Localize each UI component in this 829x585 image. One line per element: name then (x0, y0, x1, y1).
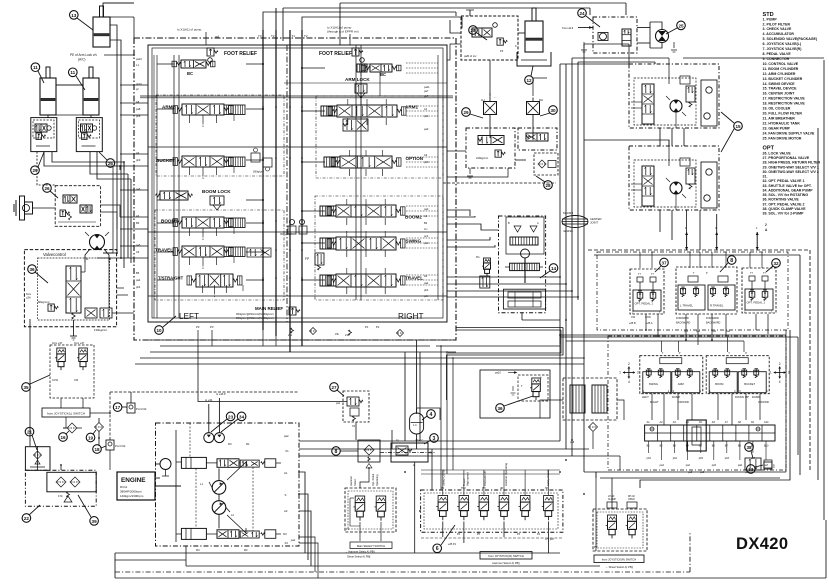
cross marker right (770, 362, 790, 384)
svg-text:22. HYDRAULIC TANK: 22. HYDRAULIC TANK (763, 122, 801, 126)
svg-text:21. AIR BREATHER: 21. AIR BREATHER (763, 117, 796, 121)
balloon 29 right (462, 108, 483, 118)
svg-text:A9: A9 (136, 151, 140, 155)
joystick right 7 (706, 351, 769, 404)
svg-text:RH: RH (539, 98, 543, 102)
balloon 28 top (469, 26, 487, 40)
to pump note left (177, 28, 206, 46)
svg-text:from JOYSTICK(R) SWITCH: from JOYSTICK(R) SWITCH (602, 558, 636, 562)
STD parts list (763, 12, 818, 140)
svg-text:OPEN: OPEN (628, 499, 635, 501)
svg-text:pa10: pa10 (495, 371, 501, 375)
svg-text:K: K (515, 44, 517, 48)
svg-text:P3: P3 (500, 49, 504, 53)
joystick left 6 (640, 351, 703, 404)
wires pedals down (646, 314, 768, 345)
TRAVEL right valve (320, 274, 423, 287)
main select switch label (345, 542, 392, 559)
svg-text:X1: X1 (285, 449, 289, 453)
svg-text:pa2: pa2 (424, 207, 429, 211)
swing motor (505, 249, 543, 283)
BOOM1 valve (161, 217, 245, 228)
from joystick R switch box bank (480, 552, 532, 566)
svg-text:27. PROPORTIONAL VALVE: 27. PROPORTIONAL VALVE (763, 156, 810, 160)
svg-text:pa3: pa3 (660, 464, 665, 467)
svg-text:15. TRAVEL DEVICE: 15. TRAVEL DEVICE (763, 87, 798, 91)
bucket port reliefs (251, 148, 272, 174)
solenoid bank vertical labels (442, 441, 575, 486)
svg-text:⌀3A: ⌀3A (26, 295, 31, 299)
svg-text:OPT. PEDAL 1: OPT. PEDAL 1 (635, 302, 654, 306)
wire hammer block context (360, 430, 392, 488)
svg-text:3. CHECK VALVE: 3. CHECK VALVE (763, 27, 792, 31)
balloon 3 (424, 434, 438, 444)
svg-text:380HP/2000rpm: 380HP/2000rpm (120, 490, 142, 494)
main valve row links right (301, 63, 438, 285)
spool port stubs left (190, 115, 243, 298)
valvecontrol block 36 (24, 250, 116, 327)
air breather 21 (25, 447, 50, 471)
svg-text:33: 33 (748, 467, 754, 472)
shuttle box 28 (443, 153, 558, 183)
swing priority FP (305, 253, 324, 270)
svg-text:1: 1 (619, 371, 621, 375)
svg-text:24: 24 (579, 11, 585, 16)
two-way block right 30 (518, 128, 557, 150)
svg-text:12: 12 (526, 78, 532, 83)
left bus verticals (124, 162, 131, 268)
svg-text:A1: A1 (284, 471, 288, 475)
svg-text:28: 28 (470, 28, 476, 33)
svg-text:pb5: pb5 (699, 457, 704, 460)
svg-text:JOINT: JOINT (590, 221, 598, 225)
svg-text:pa8: pa8 (688, 471, 693, 474)
wire joystickL box down (63, 413, 110, 428)
svg-text:BC: BC (187, 71, 193, 76)
svg-text:Safety Cut-off: Safety Cut-off (442, 469, 446, 486)
svg-text:26: 26 (44, 186, 50, 191)
restriction valve LH (481, 95, 497, 136)
svg-text:6. JOYSTICK VALVE(L): 6. JOYSTICK VALVE(L) (763, 42, 802, 46)
svg-text:1.0: 1.0 (413, 424, 417, 427)
svg-text:L.TRAVEL: L.TRAVEL (680, 304, 693, 308)
svg-text:28: 28 (545, 183, 551, 188)
svg-text:pb7: pb7 (751, 457, 756, 460)
balloon 21 (25, 427, 37, 450)
svg-text:⌀35 B: ⌀35 B (629, 322, 636, 325)
wire bottom mid verticals (464, 522, 549, 554)
svg-text:IC1: IC1 (429, 452, 434, 455)
balloon 22 (22, 505, 40, 522)
svg-text:36: 36 (497, 406, 503, 411)
svg-text:BC: BC (380, 72, 386, 77)
svg-text:FP: FP (305, 257, 309, 261)
svg-text:38. QUICK CLAMP VALVE: 38. QUICK CLAMP VALVE (763, 207, 807, 211)
svg-text:pa3: pa3 (424, 127, 429, 131)
svg-text:23. GEAR PUMP: 23. GEAR PUMP (763, 126, 791, 130)
main valve inner rails left (157, 55, 179, 318)
wire valvecontrol to valve (97, 253, 134, 313)
svg-text:Shear Select A) P8§: Shear Select A) P8§ (347, 555, 371, 559)
swing left valves (476, 256, 491, 288)
label PE of Arm Lock (70, 53, 97, 62)
balloon 11 right (69, 68, 86, 90)
svg-text:⌀35 P1: ⌀35 P1 (448, 543, 457, 546)
svg-text:pa1: pa1 (291, 538, 296, 542)
svg-text:11. BOOM CYLINDER: 11. BOOM CYLINDER (763, 67, 799, 71)
svg-text:CCW: CCW (52, 379, 59, 382)
balloon 25 (666, 21, 685, 34)
main valve bottom rail links (263, 330, 560, 414)
svg-text:37. OPT. PEDAL VALVE 2: 37. OPT. PEDAL VALVE 2 (763, 202, 805, 206)
balloon 36 (28, 265, 48, 283)
svg-text:←: ← (494, 95, 497, 99)
svg-text:R3: R3 (228, 442, 232, 446)
wire engine to pump (155, 478, 181, 486)
svg-text:3: 3 (637, 371, 639, 375)
balloon 11 left (31, 63, 44, 83)
bottom extra line (115, 472, 596, 560)
svg-text:22: 22 (24, 516, 30, 521)
BC right drop (361, 72, 380, 105)
svg-text:17: 17 (115, 405, 121, 410)
svg-text:ARM1: ARM1 (405, 105, 418, 110)
svg-text:18. RESTRICTION VALVE: 18. RESTRICTION VALVE (763, 102, 806, 106)
shear solenoid block 37 (593, 496, 647, 551)
svg-text:pa2: pa2 (284, 434, 289, 438)
svg-text:A2: A2 (284, 509, 288, 513)
svg-text:4. ACCUMULATOR: 4. ACCUMULATOR (763, 32, 795, 36)
svg-text:10. CONTROL VALVE: 10. CONTROL VALVE (763, 62, 799, 66)
svg-text:CROWD: CROWD (678, 400, 689, 404)
svg-text:→ Shear Select A) P8§: → Shear Select A) P8§ (605, 565, 633, 569)
svg-text:25. FAN DRIVE MOTOR: 25. FAN DRIVE MOTOR (763, 136, 802, 140)
svg-text:Opt. Pedal: Opt. Pedal (371, 473, 375, 486)
check Po=3.0k 17 (127, 403, 147, 413)
BC valve left (172, 60, 215, 76)
svg-text:11: 11 (33, 65, 38, 70)
svg-text:from ⌀13: from ⌀13 (562, 26, 574, 30)
svg-text:PE of Arm Lock v/v: PE of Arm Lock v/v (70, 53, 97, 57)
svg-text:4: 4 (430, 412, 433, 418)
svg-text:19: 19 (88, 435, 94, 440)
accumulator 4 (410, 413, 424, 440)
wire cylinder13 ports (103, 3, 134, 55)
lock solenoid block 26 (55, 186, 100, 227)
svg-text:R4: R4 (196, 548, 200, 552)
main valve inner rails right (356, 45, 438, 300)
svg-text:4: 4 (628, 380, 630, 384)
wire 26block context (100, 205, 120, 229)
engine box (117, 472, 155, 500)
two-way block 220kg (466, 128, 515, 178)
EPPR valve 27 (336, 391, 369, 428)
svg-text:to X1(A1) of pump: to X1(A1) of pump (177, 28, 202, 32)
boom lock pilot valve (156, 189, 232, 210)
boom lock valve block right 26 (76, 118, 102, 152)
big right loop (560, 330, 790, 488)
travel device lower (629, 140, 719, 210)
svg-text:BOOM LOCK: BOOM LOCK (202, 189, 231, 194)
balloon 10 (155, 316, 176, 334)
svg-text:pa7: pa7 (764, 464, 769, 467)
BOOM2 valve (320, 205, 422, 220)
svg-text:pa4: pa4 (726, 330, 731, 333)
pedal region envelope (597, 252, 788, 470)
svg-text:A8: A8 (136, 100, 140, 104)
LEFT label (179, 312, 199, 321)
svg-text:R2: R2 (244, 548, 248, 552)
svg-text:4: 4 (779, 380, 781, 384)
svg-text:pb6: pb6 (725, 457, 730, 460)
svg-text:39. SOL. V/V for 2-PUMP: 39. SOL. V/V for 2-PUMP (763, 212, 805, 216)
svg-text:16. CENTER JOINT: 16. CENTER JOINT (763, 92, 796, 96)
rail junction dots (262, 106, 303, 279)
grid pa labels (647, 441, 769, 474)
svg-text:pa3: pa3 (215, 35, 220, 38)
wire left top bus2 (103, 6, 134, 38)
svg-text:T2: T2 (304, 34, 308, 38)
swing parking brake (503, 289, 545, 309)
wire arm lock line (104, 55, 134, 258)
bundle to travel devices (560, 44, 717, 250)
bank top wires (421, 470, 560, 495)
svg-text:LH-40: LH-40 (608, 496, 615, 498)
svg-text:11: 11 (70, 70, 75, 75)
svg-text:RIGHT: RIGHT (650, 400, 659, 404)
balloon 4 (422, 410, 435, 420)
svg-text:pb4: pb4 (136, 285, 141, 289)
svg-text:T3: T3 (258, 34, 262, 38)
balloon 39 (78, 495, 98, 525)
travel device upper (629, 58, 719, 128)
balloon 17 (113, 403, 127, 412)
solenoid block 3 (380, 440, 436, 554)
svg-text:(through A of EPPR v/v): (through A of EPPR v/v) (327, 30, 359, 34)
opt pedal 1 right 32 (742, 268, 776, 314)
svg-text:dD: dD (500, 487, 503, 490)
svg-text:RH-40: RH-40 (628, 496, 635, 498)
TRAVEL left valve (155, 246, 271, 257)
svg-text:14: 14 (551, 266, 557, 271)
svg-text:PG: PG (476, 256, 480, 259)
balloon 14 (540, 264, 558, 278)
svg-text:15: 15 (735, 124, 741, 129)
shuttle block 9 (358, 440, 380, 468)
oil cooler 19 block (563, 378, 617, 449)
solenoid bank valves (436, 496, 447, 521)
left entry wires (120, 84, 148, 86)
valvecontrol drain (70, 320, 77, 340)
balloon 16 (59, 431, 69, 441)
main valve bottom ports (196, 325, 380, 337)
svg-text:B10: B10 (764, 445, 769, 448)
svg-text:pa10: pa10 (136, 57, 142, 61)
svg-text:34. ADDITIONAL GEAR PUMP: 34. ADDITIONAL GEAR PUMP (763, 189, 814, 193)
svg-text:28. HIGH PRESS. RETURN FILTER: 28. HIGH PRESS. RETURN FILTER (763, 161, 821, 165)
opt pedal 1 left 32 (629, 269, 664, 325)
ARM2 valve (162, 104, 245, 115)
balloon 8 (720, 256, 736, 272)
restriction valve RH (527, 98, 544, 137)
balloon 27 (330, 383, 344, 396)
svg-text:pa6: pa6 (136, 187, 141, 191)
svg-text:BOOM: BOOM (715, 382, 724, 386)
svg-text:BOOM2: BOOM2 (405, 215, 422, 220)
misc junction dots (60, 54, 713, 512)
svg-text:C/V pa7: C/V pa7 (545, 538, 555, 541)
model label DX420 (736, 535, 788, 553)
svg-text:13. BUCKET CYLINDER: 13. BUCKET CYLINDER (763, 77, 803, 81)
svg-text:OPT. PEDAL 1: OPT. PEDAL 1 (747, 301, 766, 305)
svg-text:Po=3.0k: Po=3.0k (136, 407, 147, 411)
svg-text:from ⌀37: from ⌀37 (52, 341, 63, 345)
svg-text:350kg/cm²@450L/min(Po≤30kg/cm²: 350kg/cm²@450L/min(Po≤30kg/cm²) (236, 313, 274, 316)
svg-text:P: P (745, 351, 747, 355)
bank bottom dash (421, 537, 563, 539)
svg-text:39: 39 (92, 519, 98, 524)
svg-text:31.: 31. (763, 175, 768, 179)
fan motor 25 (650, 22, 677, 52)
svg-text:DX420: DX420 (736, 535, 788, 553)
svg-text:FORWARD: FORWARD (676, 317, 689, 320)
svg-text:7. JOYSTICK VALVE(R): 7. JOYSTICK VALVE(R) (763, 47, 802, 51)
svg-text:8. PEDAL VALVE: 8. PEDAL VALVE (763, 52, 792, 56)
svg-text:pc2: pc2 (424, 234, 429, 238)
valvecontrol spools (26, 262, 112, 332)
wire swing to joint (522, 313, 560, 320)
svg-text:A1: A1 (424, 107, 428, 111)
main relief (236, 306, 300, 320)
svg-text:A10: A10 (764, 421, 769, 424)
svg-text:27: 27 (331, 385, 337, 390)
balloon 36 right (496, 396, 533, 412)
svg-text:1: 1 (770, 371, 772, 375)
svg-text:⌀35 A: ⌀35 A (646, 322, 653, 325)
wire pumps to valve bottom (299, 352, 620, 578)
balloon 13 (70, 11, 94, 30)
svg-text:P2: P2 (196, 325, 200, 329)
svg-text:24. FAN DRIVE SUPPLY VALVE: 24. FAN DRIVE SUPPLY VALVE (763, 131, 816, 135)
wire left drains (30, 319, 299, 470)
svg-text:N3: N3 (283, 532, 287, 536)
svg-text:P1: P1 (376, 325, 380, 329)
regulator bottom (181, 528, 275, 552)
svg-text:S: S (285, 493, 287, 497)
balloon 12 (525, 66, 534, 84)
svg-text:14. SWING DEVICE: 14. SWING DEVICE (763, 82, 796, 86)
rotating motor A B (85, 232, 112, 262)
svg-text:1. PUMP: 1. PUMP (763, 17, 778, 21)
boom lock valve block left 29 (31, 118, 57, 152)
wire 220 block context (447, 44, 526, 160)
main valve group envelopes (155, 95, 443, 300)
from joystick L switch box (42, 398, 90, 417)
gear pump 34 (214, 433, 224, 443)
svg-text:DV11: DV11 (120, 485, 128, 489)
svg-text:Safety Priority: Safety Priority (546, 469, 550, 486)
connector grid (645, 420, 775, 451)
P2 P3 drop lines (198, 330, 340, 402)
svg-text:8: 8 (730, 258, 733, 264)
svg-text:12. ARM CYLINDER: 12. ARM CYLINDER (763, 72, 796, 76)
svg-text:BUCKET: BUCKET (156, 158, 175, 163)
svg-text:from JOYSTICK(L) SWITCH: from JOYSTICK(L) SWITCH (47, 411, 85, 415)
svg-text:to ⌀36 P: to ⌀36 P (216, 392, 226, 396)
full flow filter 19 (95, 418, 104, 438)
svg-text:A3: A3 (424, 153, 428, 157)
svg-text:UP: UP (745, 395, 749, 399)
svg-text:Hammer: Hammer (349, 476, 353, 486)
balloon 15 (721, 112, 742, 152)
svg-text:pb10: pb10 (136, 82, 142, 86)
foot relief left (207, 48, 257, 62)
svg-text:P: P (679, 351, 681, 355)
svg-text:SWING: SWING (406, 239, 422, 244)
svg-text:DUMP: DUMP (752, 395, 760, 399)
SWING valve (320, 237, 421, 250)
pilot dashed bus right (588, 58, 824, 520)
wire cooler loop (540, 400, 624, 420)
svg-text:A5: A5 (136, 250, 140, 254)
OPTION valve (324, 156, 424, 168)
regulator top (181, 442, 275, 468)
bucket cylinder 13 (93, 6, 110, 47)
arm lock valve (345, 77, 370, 98)
svg-text:B2: B2 (424, 221, 428, 225)
spool port stubs right (347, 99, 386, 294)
swing device envelope (499, 216, 546, 313)
left bus extra vertical (103, 166, 113, 253)
svg-text:X2: X2 (285, 541, 289, 545)
pump dashed internals (190, 423, 281, 534)
RIGHT label (398, 312, 423, 321)
svg-text:2: 2 (628, 362, 630, 366)
balloon 30 (540, 106, 557, 116)
svg-text:R.TRAVEL: R.TRAVEL (710, 304, 724, 308)
wire holding to cyl (450, 20, 525, 33)
balloon 8 shuttle (332, 447, 358, 456)
svg-text:(A/C): (A/C) (78, 58, 85, 62)
svg-text:Select: Select (353, 479, 357, 486)
svg-text:T1: T1 (292, 34, 296, 38)
svg-text:from JOYSTICK(R) SWITCH: from JOYSTICK(R) SWITCH (488, 554, 524, 558)
svg-text:pb9: pb9 (136, 158, 141, 162)
svg-text:DOWN: DOWN (735, 395, 744, 399)
svg-text:2. PILOT FILTER: 2. PILOT FILTER (763, 22, 791, 26)
svg-text:pb4: pb4 (424, 288, 429, 292)
svg-text:pa1: pa1 (712, 330, 717, 333)
svg-text:8: 8 (335, 449, 338, 455)
svg-text:Hammer Select A) P8§: Hammer Select A) P8§ (492, 561, 520, 565)
svg-text:from ⌀37: from ⌀37 (74, 341, 85, 345)
below valve return lines (135, 357, 585, 365)
right return bus extensions (560, 337, 798, 455)
svg-text:P1: P1 (365, 325, 369, 329)
balloon 24 (578, 9, 600, 27)
balloon 38 (745, 443, 754, 458)
svg-text:R1: R1 (246, 442, 250, 446)
main pump block envelope (156, 423, 300, 546)
balloon 26 right (99, 152, 115, 167)
svg-text:T2: T2 (271, 34, 275, 38)
svg-text:37: 37 (661, 260, 667, 265)
svg-text:pb3: pb3 (647, 457, 652, 460)
balloon 32 right (766, 259, 780, 272)
svg-text:3: 3 (788, 371, 790, 375)
balloon 37 left (655, 258, 668, 272)
main valve supply rails (215, 8, 308, 352)
